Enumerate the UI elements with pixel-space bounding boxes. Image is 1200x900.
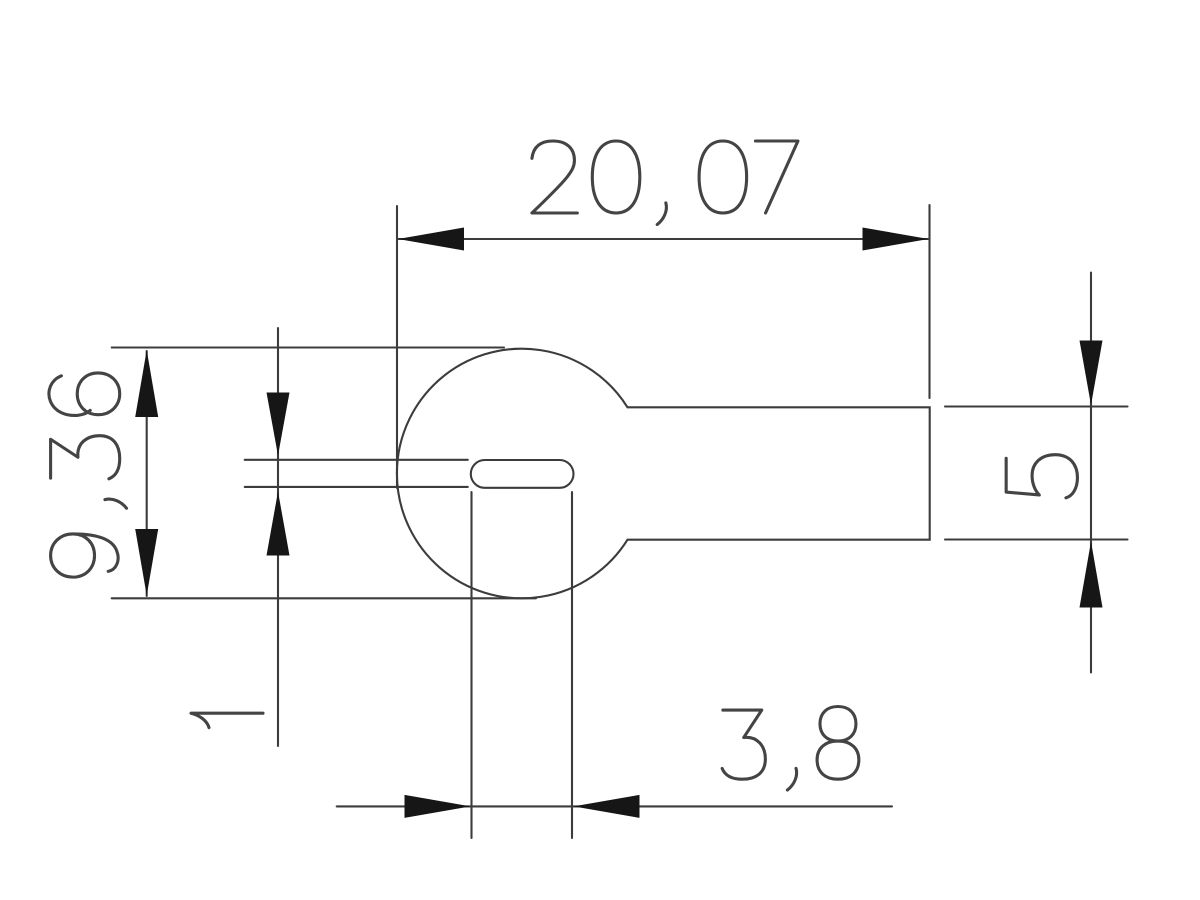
- slot in head: [471, 460, 574, 488]
- arrowhead 20,07 right: [863, 228, 929, 251]
- extension line slot bottom: [245, 486, 468, 488]
- arrowhead 9,36 bottom: [135, 529, 158, 596]
- extension line top of 9,36: [112, 346, 504, 348]
- extension line right of 20,07: [928, 205, 930, 398]
- dimension line 1: [277, 328, 279, 746]
- dimension line 9,36: [146, 351, 148, 596]
- arrowhead 1 lower: [267, 492, 290, 556]
- value label 3,8: [722, 707, 859, 791]
- dimension line 20,07: [398, 238, 928, 240]
- value label 20,07: [532, 141, 798, 225]
- arrowhead 20,07 left: [398, 228, 464, 251]
- arrowhead 3,8 left: [405, 795, 471, 818]
- extension line tab top: [945, 405, 1128, 407]
- value label 1: [191, 713, 263, 727]
- extension line slot left: [470, 492, 472, 838]
- dimension line 3,8: [337, 805, 892, 807]
- extension line slot top: [245, 459, 468, 461]
- extension line left of 20,07: [396, 206, 398, 488]
- part outline: circular head with tab: [397, 349, 930, 599]
- arrowhead 1 upper: [267, 393, 290, 456]
- arrowhead 5 upper: [1080, 341, 1103, 406]
- dimension line 5: [1090, 273, 1092, 673]
- value label 9,36: [49, 373, 127, 577]
- extension line tab bottom: [945, 538, 1128, 540]
- arrowhead 5 lower: [1080, 542, 1103, 608]
- value label 5: [1006, 455, 1077, 498]
- extension line bottom of 9,36: [112, 597, 536, 599]
- extension line slot right: [571, 492, 573, 838]
- arrowhead 3,8 right: [574, 795, 640, 818]
- arrowhead 9,36 top: [135, 350, 158, 417]
